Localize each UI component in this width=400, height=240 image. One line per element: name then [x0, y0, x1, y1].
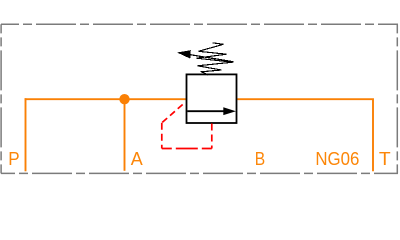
enclosure left edge: [0, 24, 2, 173]
wire P vertical (port P riser): [25, 98, 27, 171]
adjustment arrow shaft: [179, 53, 234, 62]
svg-text:B: B: [255, 148, 265, 169]
enclosure right edge: [396, 24, 398, 173]
wire main horizontal P to valve inlet: [25, 98, 186, 100]
spring (adjustable, above valve): [197, 43, 233, 75]
wire valve outlet to port T riser: [237, 99, 373, 171]
svg-text:NG06: NG06: [315, 148, 359, 169]
node junction dot at A: [119, 94, 129, 104]
valve V1 flow path line: [187, 110, 227, 112]
pilot line right vertical to valve drain: [211, 124, 213, 149]
pilot line diagonal (dashed red): [162, 102, 186, 123]
adjustment arrowhead: [177, 50, 191, 58]
svg-text:A: A: [131, 148, 144, 169]
pilot line bottom horizontal: [162, 148, 212, 150]
valve V1 flow arrowhead: [223, 107, 236, 115]
svg-text:P: P: [8, 148, 19, 169]
enclosure bottom edge: [1, 172, 398, 174]
wire A vertical (port A riser): [124, 99, 126, 171]
enclosure (subplate outline, dashed) top edge: [1, 23, 398, 25]
svg-text:T: T: [379, 148, 391, 169]
pilot line left vertical: [161, 123, 163, 149]
valve V1 body (pressure relief valve envelope): [187, 74, 237, 123]
